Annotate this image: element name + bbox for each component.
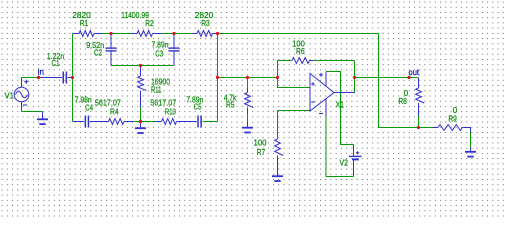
svg-text:5617.07: 5617.07 [150,98,176,107]
junction twin-T bottom center [139,120,142,123]
resistor R6 [291,60,294,62]
battery V2 [353,145,355,156]
junction twin-T top center [139,64,142,67]
wire to noninverting input y=77.5 [218,77,278,79]
svg-text:R3: R3 [201,19,210,28]
svg-text:R10: R10 [165,107,176,116]
wire op-amp output to out node [355,77,410,79]
wire op-amp V- supply to battery [326,117,354,177]
svg-text:R5: R5 [226,101,235,110]
wire R6 feedback loop [278,61,292,78]
resistor R4 [90,121,109,123]
resistor R2 [131,33,137,35]
resistor R5 [247,78,249,89]
svg-text:in: in [38,68,44,77]
wire op-amp V+ supply to battery [326,72,354,145]
junction R8 bottom / R9 left [417,126,420,129]
junction output / R6 right [353,76,356,79]
svg-text:R11: R11 [151,85,162,94]
junction node B (R2-R3-C3) [172,32,175,35]
capacitor C4 [73,121,85,123]
op-amp output lead [334,92,355,94]
svg-text:R7: R7 [257,148,266,157]
svg-text:R2: R2 [145,19,154,28]
junction + input / R6 left [276,76,279,79]
op-amp V- pin [325,99,327,117]
ground for V1 [22,111,43,113]
svg-text:R4: R4 [110,107,119,116]
ground for R9 [470,148,472,152]
wire feedback vertical x=378.5 and bottom rail y=127.5 [379,34,433,128]
resistor R11 [140,66,142,77]
svg-text:C3: C3 [155,49,163,58]
svg-text:R6: R6 [296,47,305,56]
resistor R9 [433,127,439,129]
capacitor C1 [39,77,63,79]
resistor R8 [418,78,420,89]
svg-text:C1: C1 [52,59,60,68]
svg-text:R9: R9 [448,115,457,124]
svg-text:0: 0 [453,106,458,115]
op-amp X1 [310,74,334,112]
svg-text:V1: V1 [5,92,15,101]
junction R5 top [246,76,249,79]
svg-text:7.89n: 7.89n [152,41,169,50]
op-amp V+ pin [325,72,327,87]
wire input vertical x=72.5 [72,34,74,122]
svg-text:out: out [409,68,420,77]
resistor R3 [192,33,197,35]
capacitor C5 [190,121,197,123]
junction C1 output / input node [71,76,74,79]
svg-text:100: 100 [254,139,268,148]
wire twin-T capacitor bottom y=65.5 [111,65,174,67]
wire inverting input [278,110,310,112]
svg-text:5617.07: 5617.07 [95,98,121,107]
capacitor C2 [110,34,112,48]
svg-text:C4: C4 [85,103,93,112]
junction noninverting branch [216,76,219,79]
ground at twin-T center [140,122,142,129]
wire bottom-T path y=121.5 segments [133,121,155,123]
junction node C (R3 right) [216,32,219,35]
svg-text:X1: X1 [336,101,345,110]
junction node A (R1-R2-C2) [109,32,112,35]
svg-text:C2: C2 [94,49,102,58]
resistor R10 [155,121,162,123]
ground for R5 [247,121,249,128]
svg-text:R1: R1 [80,19,89,28]
svg-text:R8: R8 [398,97,407,106]
wire top feedback rail y=33.5 [102,33,132,35]
capacitor C3 [173,34,175,48]
svg-text:C5: C5 [194,103,202,112]
svg-text:V2: V2 [340,159,349,168]
resistor R1 [73,33,80,35]
resistor R7 [277,138,279,140]
junction node in [37,76,40,79]
ground for R7 [277,175,279,178]
wire from V1 to node in [22,77,39,79]
voltage source V1 [14,87,29,102]
wire jog into op-amp + input [278,78,310,88]
junction node out [407,76,410,79]
wire right vertical of twin-T x=217.5 [217,34,219,122]
